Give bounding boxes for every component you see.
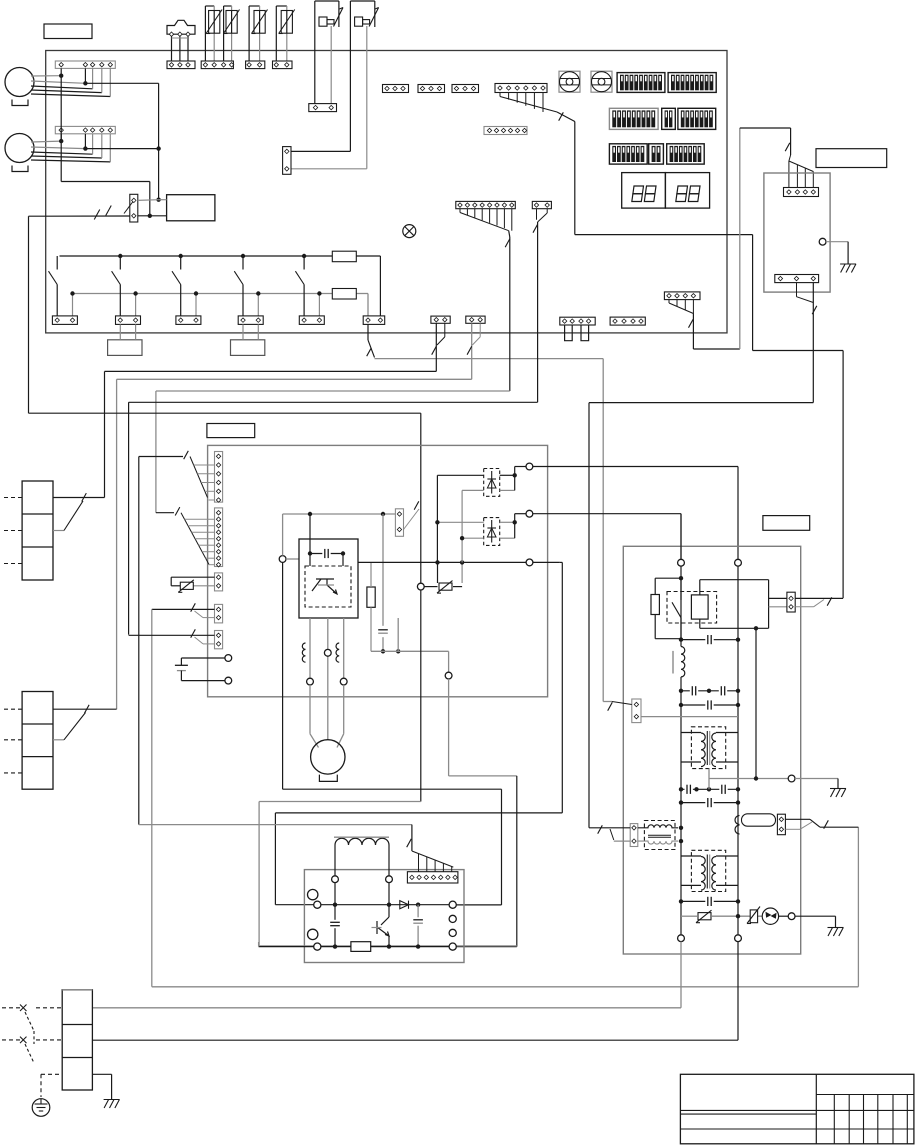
- terminal circle od1: [678, 559, 685, 566]
- terminal circle V: [324, 649, 331, 656]
- wire route-A fan: [669, 300, 693, 314]
- wire M2-5: [31, 134, 110, 162]
- wire CN-VC switch: [152, 609, 215, 617]
- connector CN-G4: [484, 127, 527, 135]
- outdoor PCB2 outline: [623, 546, 800, 954]
- junction invb a: [333, 944, 337, 948]
- terminal circle inv-o3: [449, 929, 456, 936]
- connector CN-A3: [452, 85, 479, 93]
- wire D2 in: [435, 520, 484, 524]
- junction cr1 b: [707, 689, 711, 693]
- motor MC bracket: [319, 775, 337, 782]
- remote controller box: [764, 173, 830, 292]
- terminal block TB1: [62, 990, 92, 1090]
- wire M1-4: [31, 68, 102, 92]
- wire T2 taps: [681, 856, 738, 885]
- connector CN-X: [130, 194, 138, 222]
- junction mid tap: [754, 776, 758, 780]
- terminal circle inv-o2: [449, 915, 456, 922]
- connector CN-R1: [52, 316, 77, 325]
- switch slash route-B: [559, 112, 564, 120]
- wire W57 inside PCB: [46, 215, 167, 217]
- wire bus L1: [375, 359, 604, 702]
- junction invb b: [387, 944, 391, 948]
- relay contact: [672, 578, 681, 639]
- wire out2 long: [533, 514, 681, 560]
- 7-segment digits 88 right: [676, 186, 700, 202]
- LED PC-od: [762, 908, 778, 924]
- relay switch 52-3: [172, 254, 198, 316]
- wire cr4: [681, 802, 738, 804]
- wire L1 switch: [368, 324, 375, 357]
- connector CN-A2: [418, 85, 445, 93]
- junction D2: [513, 520, 517, 524]
- switch slash route-C: [812, 306, 817, 314]
- connector CN-TH12: [201, 61, 234, 69]
- terminal block TB3: [22, 692, 53, 790]
- wire TB3 pole1: [53, 708, 117, 710]
- switch slash route-A: [688, 319, 693, 327]
- connector CN-PS1: [309, 104, 337, 112]
- relay switch 52-4: [234, 254, 260, 316]
- junction invt a: [333, 903, 337, 907]
- junction M1 pin2: [83, 81, 87, 85]
- wire od stem1: [680, 566, 682, 646]
- wire OD1 switch: [603, 702, 632, 705]
- connector CN-L1: [363, 316, 385, 325]
- CT coil U: [302, 643, 305, 662]
- indoor PCB label box: [207, 424, 255, 438]
- terminal circle out3: [526, 559, 533, 566]
- wire relay coil top: [700, 580, 769, 629]
- DIP switch block SW11: [617, 73, 665, 93]
- wire route-C: [589, 403, 813, 828]
- capacitor C-od8: [705, 896, 713, 906]
- connector CN-TH3: [246, 61, 265, 69]
- wire CN-P8 down: [509, 231, 510, 391]
- DIP switch block SW14: [662, 108, 676, 129]
- wire route-R3: [449, 679, 517, 947]
- junction invt c: [416, 903, 420, 907]
- junction M2 pin1: [59, 139, 63, 143]
- wire od2 stem: [737, 566, 739, 934]
- wire RY switch: [795, 598, 843, 606]
- ground TB1: [104, 1100, 120, 1109]
- wire x421 long: [259, 590, 517, 946]
- wire pin2 bus: [85, 83, 158, 199]
- DIP switch block SW12: [668, 73, 716, 93]
- connector CN-RY: [787, 592, 795, 612]
- transformer T2 coils: [701, 855, 716, 891]
- wire R-mod: [370, 562, 372, 651]
- connector CN-VB: [215, 573, 223, 591]
- wire bus4: [129, 402, 538, 634]
- switch slash VD: [191, 629, 196, 637]
- mount hole inv1: [308, 889, 318, 899]
- wire cr5: [681, 900, 738, 902]
- junction cr1 c: [736, 689, 740, 693]
- relay bus top: [60, 256, 381, 316]
- switch slash RY: [827, 597, 832, 605]
- terminal circle inv-o4: [449, 943, 456, 950]
- wire ac2 down: [92, 942, 738, 1041]
- wire T1 taps: [681, 733, 738, 763]
- junction M1 pin1: [59, 74, 63, 78]
- wire route-C switch: [797, 283, 814, 403]
- junction M2 pin2: [83, 146, 87, 150]
- wire relay coil bottom: [700, 619, 769, 628]
- terminal circle od2: [735, 559, 742, 566]
- wire PS2 lead2: [291, 26, 366, 169]
- rotary switch SW2: [591, 71, 612, 92]
- wire TB2 dashed stubs: [4, 498, 22, 564]
- terminal circle led: [788, 913, 795, 920]
- capacitor module: [322, 549, 330, 559]
- compressor motor MC: [311, 740, 345, 774]
- thermistor TH3: [249, 6, 267, 61]
- junction invb c: [416, 944, 420, 948]
- lamp symbol: [403, 225, 416, 238]
- junction pin1 net: [148, 214, 152, 218]
- wire D2 out: [500, 514, 526, 539]
- wire M2-1: [31, 134, 61, 142]
- switch slash OD1: [608, 702, 613, 710]
- wire led gnd: [779, 916, 836, 927]
- title block table: [680, 1074, 914, 1144]
- float switch FS: [167, 20, 195, 34]
- IGBT symbol: [312, 579, 337, 594]
- connector CN-VC: [215, 604, 223, 623]
- wire CT out: [785, 819, 858, 827]
- wire CN-V6 feed: [138, 457, 140, 825]
- wire od-g: [795, 779, 838, 789]
- wire route-VC: [152, 609, 859, 986]
- wire inv rail bottom: [259, 946, 449, 948]
- switch slash V6: [184, 451, 189, 459]
- wire D1 in: [437, 475, 483, 562]
- thermistor TH4: [276, 6, 294, 61]
- fuse mark N: [20, 1037, 27, 1044]
- wire inv-in2 left: [258, 942, 260, 947]
- junction cr3 d: [736, 787, 740, 791]
- wire C-AC: [181, 658, 225, 681]
- indoor PCB1 outline: [208, 445, 548, 696]
- pressure switch PS2 body: [350, 1, 374, 27]
- terminal circle inv-in1: [314, 901, 321, 908]
- DIP switch block SW13: [609, 108, 658, 129]
- resistor R-inv: [351, 942, 371, 952]
- terminal circle inv-o1: [449, 901, 456, 908]
- 7-segment display box2: [665, 173, 709, 209]
- wire inverter fan: [412, 851, 453, 872]
- capacitor C-inv1: [330, 905, 340, 947]
- wire W57 external: [29, 216, 46, 413]
- switch CN-S1: [436, 323, 445, 371]
- wire module W: [343, 618, 345, 678]
- capacitor C383: [378, 627, 388, 635]
- inductor L-od: [673, 647, 685, 677]
- capacitor C-od4: [705, 700, 713, 710]
- junction rail562 a: [435, 560, 439, 564]
- switch slash TB2: [82, 493, 87, 501]
- terminal block TB2: [22, 481, 53, 580]
- junction pin2 net b: [156, 198, 160, 202]
- terminal circle 651: [445, 672, 452, 679]
- wire M1-1: [31, 68, 61, 76]
- wire pin1 bus: [61, 76, 150, 216]
- terminal circle ac2: [735, 935, 742, 942]
- wire bus3: [156, 391, 510, 513]
- junction rail562 b: [460, 560, 464, 564]
- connector CN-I7: [407, 872, 458, 883]
- diode module D1: [484, 469, 500, 497]
- line filter coils: [638, 825, 678, 844]
- float switch pins: [169, 32, 190, 36]
- line filter dashed: [644, 821, 675, 850]
- switch slash FL: [598, 825, 603, 833]
- wire choke leads: [335, 845, 389, 876]
- wire od cap1 row: [681, 639, 738, 641]
- wire bus5: [29, 413, 421, 505]
- switch slash VC: [191, 603, 196, 611]
- junction module cap b: [341, 551, 345, 555]
- relay switch 52-2: [112, 254, 138, 316]
- connector CN-V9: [215, 508, 223, 567]
- connector CN-FL: [630, 824, 638, 847]
- pressure switch PS1 body: [315, 1, 339, 27]
- fork terminal F4b: [581, 325, 589, 341]
- connector CN-RC3: [775, 275, 819, 283]
- wire D1 in2: [462, 490, 484, 562]
- junction c383: [381, 649, 385, 653]
- junction cr5 b: [736, 899, 740, 903]
- wire M2-3: [31, 134, 93, 154]
- power module box: [299, 539, 358, 618]
- junction cr2 a: [679, 703, 683, 707]
- connector CN-P2: [532, 201, 551, 208]
- terminal circle AC-N: [225, 677, 232, 684]
- wire route-A: [693, 128, 739, 349]
- wire source L dashed: [2, 1007, 62, 1009]
- switch slash L1: [367, 348, 372, 356]
- ground od-g: [830, 789, 846, 798]
- relay bus bottom gray: [73, 294, 369, 317]
- fuse mark L: [20, 1005, 27, 1012]
- wire relay branch: [655, 578, 681, 639]
- ground remote: [840, 264, 856, 273]
- wire varistor421: [424, 586, 462, 588]
- connector CN-P8: [456, 201, 516, 208]
- power module dashed: [305, 566, 351, 607]
- varistor RV1: [178, 580, 194, 593]
- switch slash W57 b: [106, 206, 112, 216]
- switch blade CN-X: [124, 202, 133, 214]
- wire module U: [309, 618, 311, 678]
- IGBT Q-inv: [372, 905, 390, 947]
- connector CN-F4b: [610, 317, 645, 325]
- terminal circle module-in: [279, 556, 286, 563]
- wire source N dashed: [2, 1039, 62, 1041]
- terminal circle U: [307, 678, 314, 685]
- CT coil W: [336, 643, 339, 662]
- switch blade TB3: [53, 713, 86, 740]
- DIP switch block SW18: [667, 144, 705, 164]
- fuse F1: [332, 251, 356, 262]
- connector CN-R5: [299, 316, 324, 325]
- transformer T1 coils: [701, 731, 716, 767]
- junction vr: [736, 914, 740, 918]
- junction fl b: [679, 839, 683, 843]
- switch slash inverter: [407, 839, 412, 847]
- capacitor C-od3: [719, 686, 727, 696]
- junction cr3 a: [679, 787, 683, 791]
- terminal circle W: [340, 678, 347, 685]
- wire ch down: [335, 883, 389, 905]
- wire module-in down: [283, 562, 502, 905]
- connector CN-S1: [431, 316, 450, 323]
- wire remote earth: [826, 242, 848, 264]
- junction D1: [513, 473, 517, 477]
- switch slash S1: [432, 346, 437, 354]
- wire module V: [327, 618, 329, 740]
- switch slash MD: [414, 501, 419, 509]
- connector CN-F4: [560, 317, 595, 325]
- capacitor C-od7: [705, 798, 713, 808]
- wire mod-g: [397, 618, 399, 651]
- wire CN-P8 fan: [460, 209, 512, 231]
- terminal circle inv-in2: [314, 943, 321, 950]
- terminal circle od-g: [788, 775, 795, 782]
- CT coil od: [735, 816, 740, 835]
- junction od c: [736, 638, 740, 642]
- terminal circle AC-L: [225, 655, 232, 662]
- wire out1 long: [533, 467, 738, 560]
- wire CN-V6 fan: [139, 457, 215, 501]
- wire CN-P2 fan: [537, 209, 548, 222]
- switch slash V9: [175, 507, 180, 515]
- crankcase heater H2: [231, 340, 265, 356]
- module cap wires: [310, 514, 343, 566]
- wire FS leads: [172, 36, 189, 61]
- terminal circle out1: [526, 463, 533, 470]
- switch slash S2: [467, 346, 472, 354]
- connector CN-MD: [395, 509, 403, 537]
- junction cr2 b: [736, 703, 740, 707]
- switch slash P2: [533, 224, 538, 232]
- junction cr1 a: [679, 689, 683, 693]
- connector CN-R3: [176, 316, 201, 325]
- wire relay-to-mid: [754, 626, 758, 778]
- wire PS1 leads: [315, 1, 331, 104]
- connector CN-B6: [495, 84, 547, 93]
- fan motor M1: [5, 68, 34, 97]
- switch slash TB3: [84, 705, 89, 713]
- terminal circle out2: [526, 510, 533, 517]
- pressure switch PS2 contact: [369, 8, 379, 27]
- capacitor C-od6: [719, 784, 727, 794]
- terminal circle remote: [819, 238, 826, 245]
- connector CN-S2: [466, 316, 485, 323]
- connector CN-R4: [238, 316, 263, 325]
- connector CN-RC4: [784, 188, 819, 197]
- DIP switch block SW16: [609, 144, 647, 164]
- relay coil: [691, 595, 708, 619]
- junction invt b: [387, 903, 391, 907]
- resistor R-od: [651, 595, 659, 615]
- resistor R-mod: [367, 587, 375, 607]
- ground led: [828, 928, 844, 937]
- wire earth dashed: [41, 1074, 62, 1097]
- wire bus1: [105, 371, 437, 497]
- wire od1 top: [680, 514, 682, 560]
- wire module rail514: [283, 513, 396, 515]
- wire heater H2 leads: [243, 324, 258, 339]
- fan motor M2: [5, 134, 34, 163]
- mount hole inv2: [308, 929, 318, 939]
- wire route-B fan: [500, 93, 557, 113]
- wire vr row: [681, 915, 762, 917]
- connector CN-A1: [383, 85, 409, 93]
- transformer T1 dashed: [691, 727, 725, 769]
- pressure switch PS1 contact: [334, 8, 344, 27]
- wire inverter feed: [139, 825, 412, 851]
- junction mod-g: [396, 649, 400, 653]
- terminal circle ac1: [678, 935, 685, 942]
- connector CN-FS: [167, 61, 195, 69]
- wire ac1 down: [92, 942, 681, 1008]
- wire M1-2: [31, 68, 85, 83]
- wire OD1 pin2: [641, 716, 738, 718]
- wire rv2 links: [438, 562, 463, 583]
- remote label box: [816, 149, 887, 168]
- wire cr2: [681, 704, 738, 706]
- wire CN-V9 fan: [156, 513, 215, 565]
- 7-segment display box1: [622, 173, 666, 209]
- wire PS2 lead1: [291, 1, 350, 151]
- capacitor C-inv2: [413, 905, 423, 947]
- main control PCB outline: [46, 51, 727, 333]
- junction od b: [679, 637, 683, 641]
- connector CN-M1: [55, 61, 115, 68]
- choke coil L-CH: [335, 838, 389, 845]
- connector CN-V6: [215, 452, 223, 503]
- junction rail514 a: [308, 512, 312, 516]
- wire module-in: [283, 514, 299, 559]
- junction cr3 c: [707, 787, 711, 791]
- junction cr3 b: [694, 787, 698, 791]
- switch link dashed: [33, 1031, 35, 1044]
- junction pin2 net a: [156, 146, 160, 150]
- wire varistor loop: [171, 577, 214, 586]
- junction cr5 a: [679, 899, 683, 903]
- junction rail514 b: [381, 512, 385, 516]
- switch blade L dashed: [25, 1012, 34, 1031]
- wire M1-5: [31, 68, 110, 96]
- wire cr3: [681, 779, 738, 790]
- DIP switch block SW15: [678, 108, 716, 129]
- wire bus2: [117, 379, 472, 709]
- relay box B1: [167, 195, 215, 221]
- wire cap383: [382, 514, 384, 651]
- wire route-R1: [275, 562, 562, 904]
- crankcase heater H1: [108, 340, 142, 356]
- connector CN-OD1: [632, 699, 641, 723]
- wire FL switch: [589, 828, 630, 841]
- varistor RV-od: [696, 910, 712, 923]
- switch slash remote: [785, 143, 790, 151]
- connector CN-R2: [116, 316, 141, 325]
- choke core bar: [334, 836, 389, 838]
